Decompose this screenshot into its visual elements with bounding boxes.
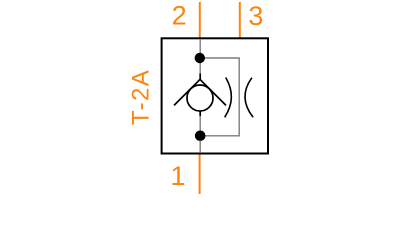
node A junction dot: [195, 53, 205, 63]
check valve lower stub (black): [199, 111, 201, 117]
check valve stem (black): [199, 74, 201, 80]
wire port 3 (orange, top right): [239, 2, 241, 39]
wire ball to node B (gray): [199, 116, 201, 131]
wire node B to port 1 (gray): [199, 141, 201, 153]
throttle right arc: [245, 78, 253, 118]
svg-text:T-2A: T-2A: [128, 69, 155, 125]
bypass wire node A to node B via throttle (gray): [200, 58, 239, 136]
svg-text:2: 2: [172, 1, 187, 31]
check valve seat V: [174, 79, 226, 105]
throttle left arc: [225, 78, 232, 118]
svg-text:3: 3: [248, 1, 263, 31]
wire port 2 (orange, top left): [199, 2, 201, 38]
node B junction dot: [195, 131, 206, 142]
wire port 1 (orange, bottom): [199, 155, 201, 195]
svg-text:1: 1: [170, 161, 185, 191]
check valve ball: [187, 85, 213, 111]
valve body rectangle: [162, 38, 268, 153]
wire port 2 to node A (gray, inside body): [199, 39, 201, 74]
